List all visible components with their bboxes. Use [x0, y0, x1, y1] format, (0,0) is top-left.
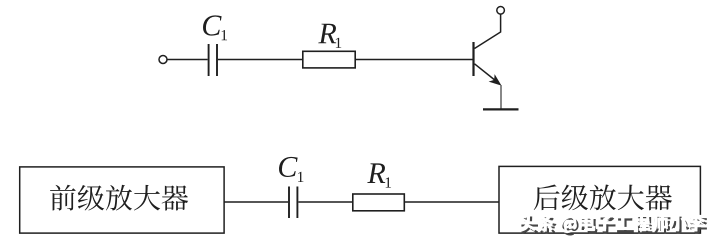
label R1 (bottom) [367, 163, 391, 187]
resistor R1 (top, box) [303, 51, 355, 68]
resistor R1 (bottom, box) [353, 194, 405, 211]
label R1 (top) [318, 24, 341, 48]
wire: pre-amp box to capacitor C1 (bottom) [224, 201, 288, 203]
block: 前级放大器 (pre-stage amplifier) box [20, 167, 224, 233]
capacitor C1 (bottom) [289, 187, 297, 219]
input terminal (top-left open circle) [159, 56, 167, 64]
wire: resistor R1 to transistor base [355, 59, 472, 61]
capacitor C1 (top) [209, 44, 217, 76]
wire: capacitor C1 to resistor R1 (top) [218, 59, 303, 61]
label C1 (bottom) [279, 157, 303, 182]
ground (emitter ground bar) [483, 108, 519, 110]
label 后级放大器 [534, 184, 672, 210]
wire: resistor R1 to post-amp box [404, 201, 499, 203]
transistor Q1 emitter lead with arrow [475, 64, 502, 86]
wire: input terminal to capacitor C1 [167, 59, 207, 61]
label C1 (top) [203, 15, 227, 40]
wire: emitter to ground [500, 85, 502, 109]
collector terminal (open circle) [497, 7, 505, 15]
label 前级放大器 [50, 185, 188, 211]
block: 后级放大器 (post-stage amplifier) box [499, 166, 700, 233]
transistor Q1 base bar [472, 42, 474, 76]
wire: capacitor C1 to resistor R1 (bottom) [298, 201, 352, 203]
transistor Q1 collector lead [475, 14, 501, 48]
watermark 头条@电子工程师小李 (embossed, dark shadow lower-right) [519, 214, 708, 236]
